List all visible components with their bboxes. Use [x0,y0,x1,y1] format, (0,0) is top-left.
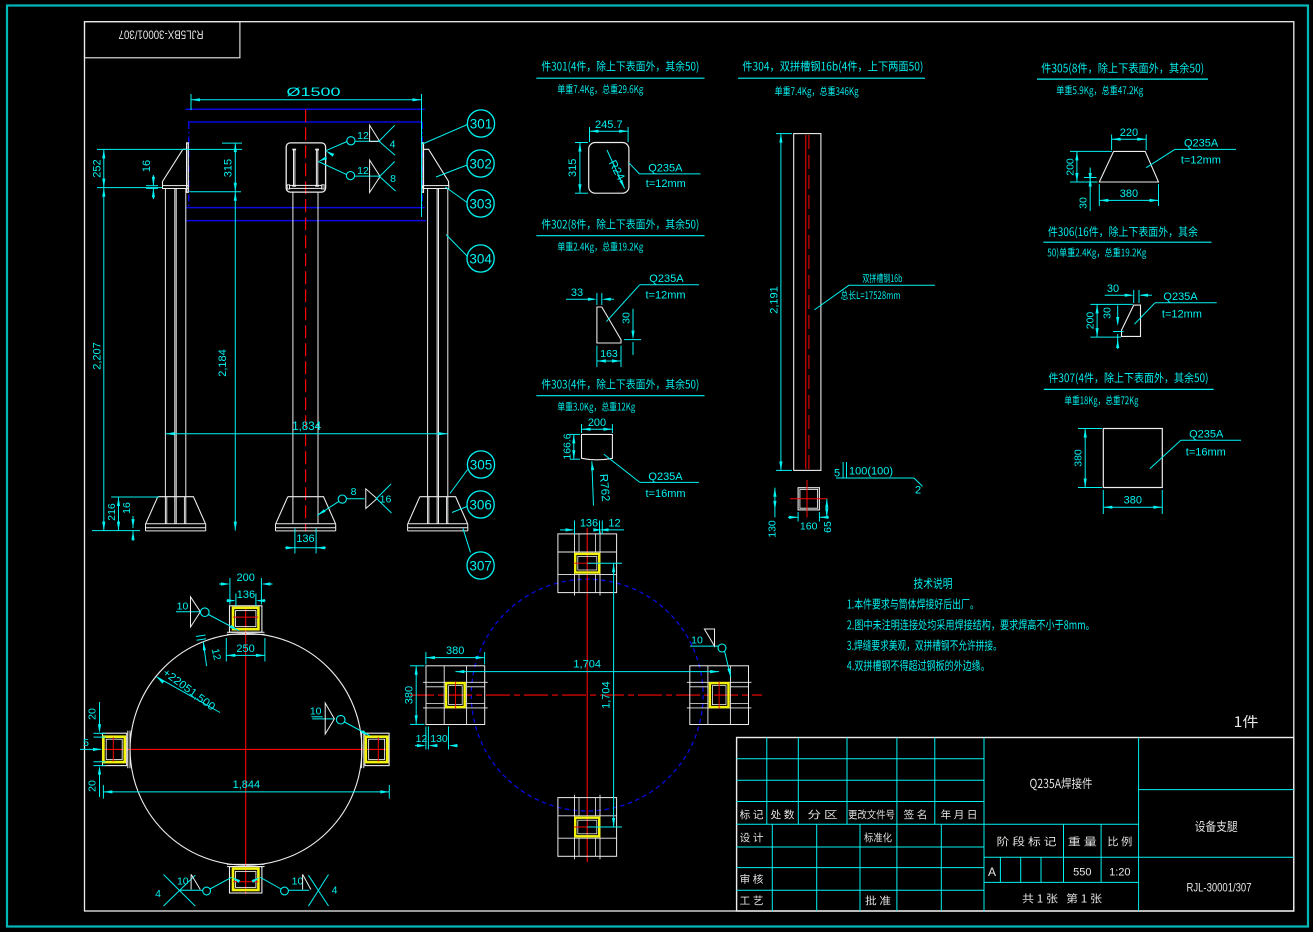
svg-text:166.6: 166.6 [561,433,573,459]
svg-text:R762: R762 [597,474,611,502]
dim 200 [581,424,583,433]
svg-text:t=12mm: t=12mm [1181,155,1221,167]
svg-text:380: 380 [446,645,464,657]
dim 315 / 2184 [222,142,242,144]
svg-text:220: 220 [1120,127,1138,139]
301 plate shape [589,143,629,194]
svg-text:315: 315 [567,159,579,177]
svg-text:245.7: 245.7 [595,119,623,131]
svg-text:1,834: 1,834 [292,421,321,433]
dim 30 top [1133,290,1135,303]
svg-text:RJL-30001/307: RJL-30001/307 [1187,881,1252,895]
tank circle [130,634,362,866]
dim 252 / 2207 [97,148,242,150]
svg-text:12: 12 [357,165,369,177]
right pad plate 301 edge view [422,143,424,192]
svg-text:10: 10 [177,601,189,613]
red centerlines [586,528,588,862]
balloon 301 [467,110,494,137]
dim 216 / 16 foot [111,496,159,498]
svg-text:33: 33 [571,287,583,299]
svg-text:1,844: 1,844 [233,779,261,791]
svg-text:t=16mm: t=16mm [1186,446,1226,458]
dim 1704 horizontal [455,671,719,673]
svg-text:1,704: 1,704 [601,681,613,709]
right top plate 303 edge [423,186,449,189]
dim 12 slanted [203,641,206,666]
leader channel label [814,285,849,310]
302 gusset shape [597,307,621,343]
dim 1704 vertical [587,562,622,564]
tank shell bottom (blue) [185,108,424,110]
svg-text:252: 252 [92,159,104,177]
svg-text:5: 5 [83,737,89,749]
svg-text:Q235A: Q235A [648,471,683,483]
weld symbol 8/16 at middle foot [317,501,339,515]
dim 250 [225,638,227,662]
top foot [558,534,617,593]
svg-text:163: 163 [600,348,618,360]
center line middle leg (red) [305,109,307,530]
dim 160 [797,512,799,522]
305 trapezoid [1099,151,1158,182]
top foot [230,606,262,632]
svg-text:200: 200 [1065,158,1077,176]
svg-text:8: 8 [351,486,357,498]
svg-text:20: 20 [87,780,99,792]
svg-text:1,704: 1,704 [573,659,601,671]
dim 245.7 [589,127,591,142]
leader Q235A t=16 [604,454,640,482]
svg-text:380: 380 [1124,495,1142,507]
top-left drawing number box [85,22,240,58]
svg-text:160: 160 [800,521,818,533]
svg-text:Q235A: Q235A [1163,291,1198,303]
balloon leaders [423,125,468,145]
right foot [690,666,749,725]
small 5 with arrow [80,748,101,750]
svg-text:130: 130 [767,520,779,538]
svg-text:200: 200 [1085,312,1097,330]
svg-text:2,184: 2,184 [217,349,229,377]
svg-text:t=12mm: t=12mm [646,178,686,190]
svg-text:380: 380 [1120,188,1138,200]
svg-text:30: 30 [1107,283,1119,295]
weld symbol 12/4 upper [326,142,347,151]
svg-text:t=12mm: t=12mm [646,290,686,302]
weld 10/4 bottom-right [281,887,289,895]
dim 380 left [1078,428,1102,430]
svg-text:380: 380 [404,686,416,704]
svg-text:65: 65 [822,521,834,533]
dim 200 left [1090,303,1133,305]
left pad plate 301 edge view [187,143,189,192]
svg-text:t=12mm: t=12mm [1162,308,1202,320]
svg-text:315: 315 [222,159,234,177]
svg-text:301: 301 [470,116,493,131]
dim 30 inner [1117,306,1119,324]
leader Q235A t=12 [1134,303,1155,324]
svg-text:2,207: 2,207 [92,342,104,370]
right foot [365,733,389,765]
304 column body [794,134,821,471]
svg-text:306: 306 [469,497,492,512]
balloon 306 [467,491,494,518]
svg-text:20: 20 [87,708,99,720]
303 pad shape [582,434,613,459]
tank circle blue dashed [471,579,703,811]
svg-text:Q235A: Q235A [649,273,684,285]
dim 130 [774,488,776,518]
bottom foot [230,867,262,893]
dim Ø1500 [190,94,192,110]
svg-text:10: 10 [691,635,703,647]
dim 1834 [165,433,447,435]
svg-text:200: 200 [588,417,606,429]
svg-text:12: 12 [608,518,620,530]
left leg (304) [164,189,166,524]
307 plate square [1103,429,1162,488]
svg-text:16: 16 [121,502,133,514]
dim 200 [1070,150,1112,152]
dim 33 [596,293,598,305]
svg-text:4: 4 [390,139,396,151]
dim 315 [575,142,588,144]
dim 136 top [235,594,237,607]
dim 136 below middle foot [294,529,296,554]
dim 200 top [229,578,231,605]
balloon 305 [467,451,494,478]
weld symbol 12/8 lower [318,162,346,175]
304 bottom section [798,488,819,510]
svg-text:12: 12 [416,733,428,745]
svg-text:10: 10 [310,706,322,718]
306 gusset shape [1122,305,1141,336]
svg-text:A: A [988,865,996,879]
svg-text:136: 136 [580,518,598,530]
svg-text:Q235A: Q235A [1184,138,1219,150]
svg-text:Q235A: Q235A [1189,429,1224,441]
svg-text:30: 30 [1078,197,1090,209]
dim 380 [1098,184,1100,206]
svg-text:12: 12 [357,130,369,142]
svg-text:2,191: 2,191 [769,286,781,314]
middle leg cap: plate 301 front [286,143,325,192]
svg-text:304: 304 [469,251,492,266]
dims 12 / 130 bottom-left [425,727,427,750]
leader Q235A t=12 [1146,149,1175,167]
right gusset 302 [424,149,449,185]
svg-text:307: 307 [469,558,492,573]
balloon 307 [467,552,494,579]
dim 2191 [780,134,782,471]
middle leg (304) [292,192,294,524]
dim 1844 [102,785,104,799]
svg-text:380: 380 [1073,449,1085,467]
dim 220 [1111,135,1113,151]
left foot [426,666,485,725]
balloon 302 [467,150,494,177]
center lines red [103,748,390,750]
svg-text:136: 136 [296,533,314,545]
svg-text:10: 10 [292,875,304,887]
svg-text:10: 10 [177,875,189,887]
svg-text:250: 250 [236,643,254,655]
left foot [103,733,127,765]
dim 30 [624,339,641,341]
svg-text:136: 136 [237,589,255,601]
1 piece note [1235,715,1258,728]
svg-text:130: 130 [430,733,448,745]
R762 leader [592,461,594,505]
svg-text:4: 4 [155,888,161,900]
cap bottom plate 303 [290,185,322,188]
leader Q235A t=12 [629,163,640,174]
svg-text:1:20: 1:20 [1109,867,1130,879]
tank shell sides blue dash-dot [188,122,190,207]
leader Q235A t=16 [1150,440,1181,469]
svg-text:Ø1500: Ø1500 [287,85,341,99]
svg-text:2: 2 [915,485,921,497]
svg-text:200: 200 [237,572,255,584]
svg-text:550: 550 [1073,867,1091,879]
dim 163 [596,346,598,368]
balloon 304 [467,245,494,272]
left top plate 303 edge [163,186,189,189]
elevation mark +2205/1500 [156,677,220,713]
dim 166.6 [570,433,580,435]
dims 20/20 left [99,702,101,731]
dim 30 [1089,168,1091,180]
leader Q235A t=12 [606,285,639,322]
svg-text:16: 16 [380,494,392,506]
svg-text:Q235A: Q235A [648,163,683,175]
dim 65 [826,499,828,518]
svg-text:303: 303 [469,196,492,211]
R24 leader [607,150,625,189]
svg-text:16: 16 [141,160,153,172]
dim 380 top-left [425,652,427,665]
svg-text:t=16mm: t=16mm [646,488,686,500]
bottom foot [558,798,617,857]
dim 16 plate top left [146,185,158,187]
feet (305 trapezoid + 307 base plates) [146,497,206,524]
dim 380 bottom [1102,490,1104,514]
right leg (304) [427,189,429,524]
dims 136 / 12 top [574,521,576,535]
svg-text:30: 30 [1102,307,1114,319]
svg-text:302: 302 [469,156,492,171]
left gusset 302 [163,149,187,185]
svg-text:4: 4 [332,885,338,897]
svg-text:RJL5BX-30001/307: RJL5BX-30001/307 [119,28,204,40]
svg-text:305: 305 [470,457,493,472]
svg-text:30: 30 [621,312,633,324]
svg-text:100(100): 100(100) [849,466,893,478]
balloon 303 [467,190,494,217]
svg-text:216: 216 [106,503,118,521]
dim 380 left [410,665,425,667]
svg-text:8: 8 [390,173,396,185]
